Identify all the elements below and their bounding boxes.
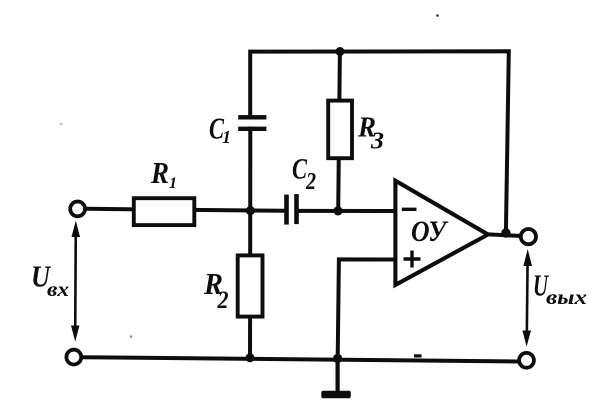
label Uin	[31, 259, 69, 302]
svg-text:R: R	[150, 155, 169, 190]
resistor R1	[134, 198, 195, 225]
arrow: Uout measurement double arrow	[522, 249, 532, 347]
op-amp U1 triangle	[395, 181, 488, 285]
wire: bottom bus	[82, 357, 518, 361]
wire: R2 lower lead to bottom bus	[248, 314, 252, 358]
arrow: Uin measurement double arrow	[71, 221, 80, 342]
wire: op-amp output to terminal	[486, 234, 520, 236]
capacitor C2	[284, 194, 299, 225]
wire: C1 lower lead through node A down to R2	[248, 127, 252, 259]
label R1	[150, 155, 177, 192]
terminal: output bottom	[519, 353, 534, 368]
speck noise	[60, 14, 439, 357]
terminal: input top	[70, 202, 85, 217]
svg-text:2: 2	[305, 169, 316, 195]
terminal: input bottom	[66, 350, 81, 365]
junction node B (C2/R3/op-amp)	[333, 206, 342, 215]
ground	[321, 358, 351, 398]
capacitor C1	[238, 115, 266, 131]
wire: R3 vertical branch from top bus to node B	[338, 52, 340, 212]
label R2	[203, 266, 228, 314]
wire: C2 to op-amp inverting input	[298, 209, 396, 213]
op-amp minus input sign	[402, 208, 417, 211]
svg-text:2: 2	[217, 287, 229, 314]
junction: ground node on bottom bus	[333, 354, 342, 363]
wire: main input bus from input terminal to C2	[86, 209, 285, 211]
label C1	[209, 111, 231, 148]
svg-text:вх: вх	[47, 277, 69, 301]
label Uout	[533, 268, 587, 310]
wire: op-amp noninverting input L-shape to ground node	[338, 259, 397, 358]
op-amp plus input sign	[404, 251, 421, 268]
svg-text:3: 3	[370, 129, 384, 155]
terminal: output top	[521, 229, 536, 244]
resistor R2	[238, 255, 263, 316]
resistor R3	[328, 101, 352, 159]
junction: output node	[501, 228, 510, 237]
svg-text:ОУ: ОУ	[411, 215, 449, 248]
junction node A (R1/C1/R2/C2)	[246, 206, 255, 215]
wire: top feedback bus with right vertical	[250, 51, 509, 233]
junction: R2 bottom on bottom bus	[246, 353, 255, 362]
label R3	[357, 112, 384, 155]
svg-text:вых: вых	[546, 285, 587, 309]
svg-text:1: 1	[169, 175, 177, 192]
junction: top bus / R3	[336, 47, 345, 56]
svg-text:1: 1	[222, 127, 231, 147]
label C2	[292, 153, 316, 196]
